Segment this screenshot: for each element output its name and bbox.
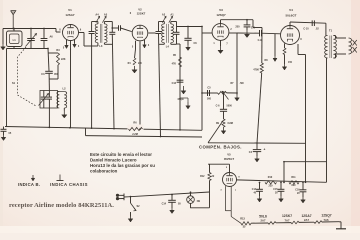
svg-text:12SQ7: 12SQ7 — [216, 13, 226, 17]
svg-text:22K: 22K — [61, 58, 66, 61]
svg-text:Daniel Horacio Lucero: Daniel Horacio Lucero — [90, 157, 137, 162]
svg-text:C-9: C-9 — [258, 39, 263, 42]
svg-text:receptor Airline modelo 84KR25: receptor Airline modelo 84KR2511A. — [9, 202, 114, 209]
svg-text:C-10: C-10 — [303, 28, 309, 31]
svg-text:860: 860 — [292, 184, 297, 187]
svg-text:50L6GT: 50L6GT — [285, 14, 296, 18]
svg-text:V3: V3 — [219, 8, 223, 12]
svg-text:47K: 47K — [172, 63, 177, 66]
svg-text:COMPEN. BAJOS.: COMPEN. BAJOS. — [199, 145, 242, 150]
svg-text:250: 250 — [235, 26, 240, 29]
svg-text:500: 500 — [207, 98, 212, 101]
svg-text:Este circuito lo envia el lect: Este circuito lo envia el lector — [90, 152, 152, 157]
svg-text:12SK7: 12SK7 — [137, 11, 146, 15]
svg-text:7A7: 7A7 — [285, 218, 290, 222]
svg-text:450: 450 — [54, 73, 59, 76]
svg-text:6.8M: 6.8M — [228, 122, 233, 125]
svg-text:R11: R11 — [291, 176, 296, 179]
svg-text:C15: C15 — [273, 189, 278, 191]
svg-text:12SA7: 12SA7 — [65, 13, 75, 17]
svg-text:R12: R12 — [200, 175, 205, 178]
svg-text:V1: V1 — [68, 8, 72, 12]
svg-text:C13: C13 — [172, 82, 177, 85]
svg-text:C16: C16 — [295, 190, 300, 192]
svg-text:C14: C14 — [252, 188, 257, 191]
svg-text:35Z5GT: 35Z5GT — [224, 157, 235, 161]
svg-text:+: + — [264, 148, 266, 152]
svg-text:INDICA B.: INDICA B. — [18, 182, 40, 187]
svg-text:.5M: .5M — [240, 82, 244, 85]
svg-text:L3: L3 — [99, 44, 103, 48]
svg-text:C14: C14 — [162, 203, 167, 206]
svg-text:colaboracion: colaboracion — [90, 168, 118, 173]
svg-text:R10: R10 — [268, 176, 273, 179]
svg-text:R13: R13 — [240, 218, 245, 221]
svg-text:2.2M: 2.2M — [132, 133, 138, 136]
svg-text:2A7: 2A7 — [304, 218, 309, 222]
svg-text:L4: L4 — [166, 45, 170, 49]
svg-text:470pF: 470pF — [177, 98, 184, 101]
svg-text:C-8: C-8 — [251, 27, 256, 30]
svg-text:220: 220 — [269, 185, 274, 188]
svg-text:150: 150 — [288, 61, 293, 64]
svg-text:470K: 470K — [253, 69, 259, 72]
svg-text:V4: V4 — [289, 8, 293, 12]
svg-text:50L6: 50L6 — [259, 214, 267, 218]
svg-text:12SK7: 12SK7 — [282, 214, 292, 218]
svg-text:7A6: 7A6 — [324, 218, 329, 222]
svg-text:12SA7: 12SA7 — [301, 214, 311, 218]
svg-text:5000: 5000 — [227, 105, 233, 108]
svg-text:INDICA CHASIS: INDICA CHASIS — [50, 182, 88, 187]
svg-text:C-6: C-6 — [216, 105, 221, 108]
svg-text:12SQ7: 12SQ7 — [321, 214, 331, 218]
svg-text:2A7: 2A7 — [261, 219, 266, 223]
svg-text:Horu13 le da las gracias por s: Horu13 le da las gracias por su — [90, 163, 155, 168]
